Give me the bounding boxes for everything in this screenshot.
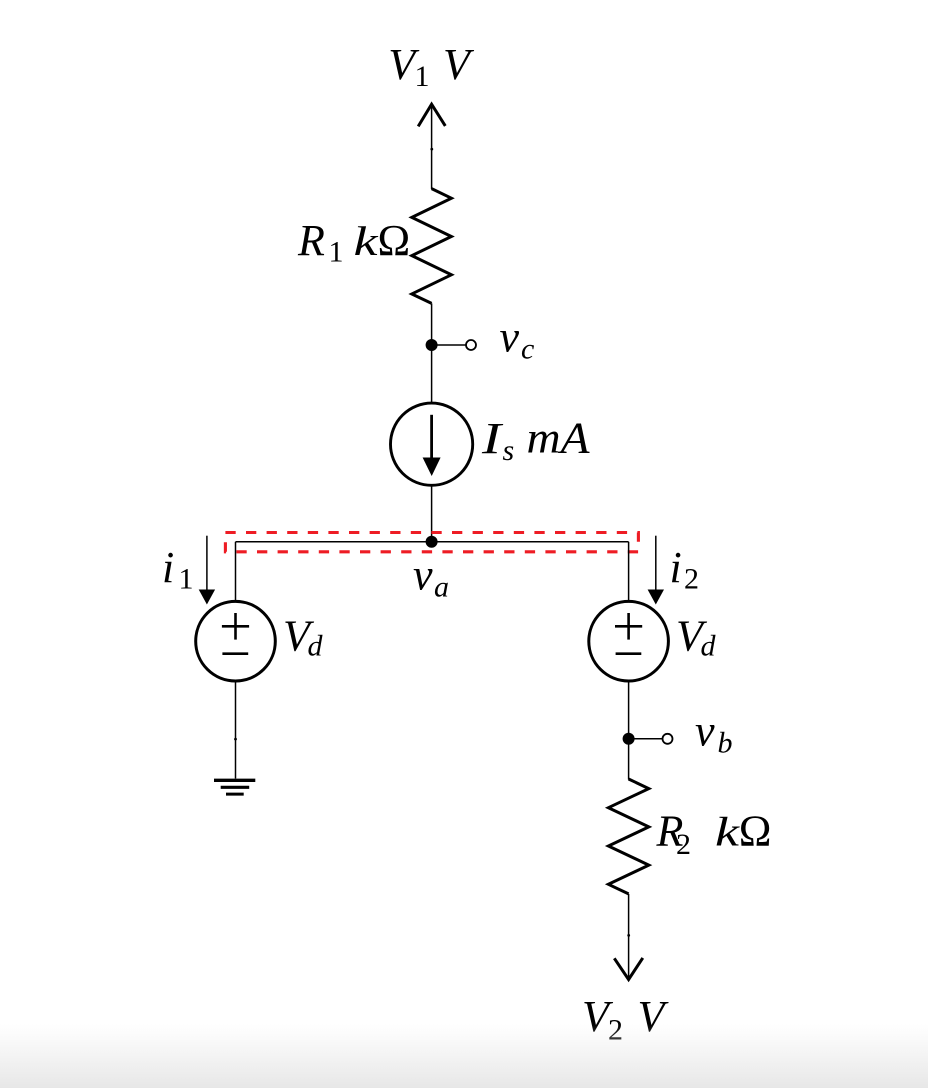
svg-text:1: 1 bbox=[179, 563, 194, 596]
wire node-a bus bbox=[236, 541, 629, 543]
svg-text:1: 1 bbox=[329, 236, 344, 269]
wire current source to node a bbox=[431, 486, 433, 543]
tiny node dot on V2 wire bbox=[627, 934, 630, 937]
wire resistor R1 to current source bbox=[431, 303, 433, 404]
svg-text:mA: mA bbox=[527, 414, 591, 463]
current source arrow bbox=[423, 415, 441, 476]
bottom page fade bbox=[0, 1024, 928, 1088]
tiny node dot on V1 wire bbox=[430, 148, 433, 151]
wire to vb terminal bbox=[629, 738, 662, 740]
svg-text:1: 1 bbox=[415, 60, 430, 93]
label Vd left bbox=[283, 611, 324, 662]
red dashed highlight box bbox=[225, 533, 638, 552]
plus sign left source bbox=[222, 613, 249, 640]
label vc bbox=[500, 313, 535, 366]
current source Is circle bbox=[391, 403, 473, 485]
svg-text:v: v bbox=[500, 313, 520, 362]
svg-text:R: R bbox=[297, 216, 325, 265]
voltage source Vd right circle bbox=[589, 601, 669, 681]
label va bbox=[413, 550, 449, 603]
svg-text:V: V bbox=[443, 40, 475, 89]
svg-text:d: d bbox=[308, 630, 324, 663]
svg-text:b: b bbox=[718, 727, 733, 760]
svg-text:k: k bbox=[715, 809, 740, 855]
arrow to V2 bbox=[614, 958, 643, 980]
wire bus to right source bbox=[628, 542, 630, 602]
plus sign right source bbox=[615, 613, 642, 640]
open terminal vc bbox=[466, 340, 476, 350]
svg-text:c: c bbox=[521, 333, 534, 366]
label Vd right bbox=[676, 611, 717, 662]
svg-text:a: a bbox=[434, 570, 449, 603]
svg-text:2: 2 bbox=[676, 828, 691, 861]
label V2 V (bottom supply) bbox=[582, 992, 670, 1046]
label R2 kOhm bbox=[656, 807, 772, 861]
svg-text:2: 2 bbox=[684, 563, 699, 596]
wire bus to left source bbox=[235, 542, 237, 602]
wire to vc terminal bbox=[432, 344, 466, 346]
svg-text:d: d bbox=[701, 630, 717, 663]
label R1 kOhm bbox=[297, 216, 410, 268]
resistor R1 bbox=[412, 189, 452, 304]
wire node b to resistor R2 bbox=[628, 739, 630, 780]
minus sign left source bbox=[222, 652, 248, 655]
svg-text:Ω: Ω bbox=[378, 216, 411, 265]
open terminal vb bbox=[663, 734, 673, 744]
svg-text:v: v bbox=[695, 707, 715, 756]
wire right source to node b bbox=[628, 681, 630, 739]
svg-text:I: I bbox=[481, 414, 504, 463]
svg-text:s: s bbox=[503, 434, 515, 467]
ground bbox=[214, 780, 255, 794]
svg-text:i: i bbox=[162, 543, 174, 592]
svg-text:i: i bbox=[670, 543, 682, 592]
svg-text:Ω: Ω bbox=[739, 807, 772, 856]
svg-text:v: v bbox=[413, 550, 433, 599]
arrow to V1 bbox=[418, 104, 445, 189]
label vb bbox=[695, 707, 733, 760]
minus sign right source bbox=[616, 652, 642, 655]
resistor R2 bbox=[608, 779, 648, 894]
wire left source to ground bbox=[235, 681, 237, 779]
tiny node dot on left ground wire bbox=[234, 738, 237, 741]
svg-text:k: k bbox=[354, 218, 379, 264]
label Is mA bbox=[481, 414, 591, 468]
current arrow i2 bbox=[648, 536, 664, 605]
label i1 bbox=[162, 543, 194, 596]
node a junction dot bbox=[426, 536, 438, 548]
label i2 bbox=[670, 543, 700, 596]
current arrow i1 bbox=[199, 536, 215, 605]
wire resistor R2 to V2 arrow bbox=[628, 894, 630, 977]
label V1 V (top supply) bbox=[388, 40, 475, 93]
voltage source Vd left circle bbox=[196, 601, 276, 681]
node vb junction dot bbox=[623, 733, 635, 745]
node vc junction dot bbox=[426, 339, 438, 351]
